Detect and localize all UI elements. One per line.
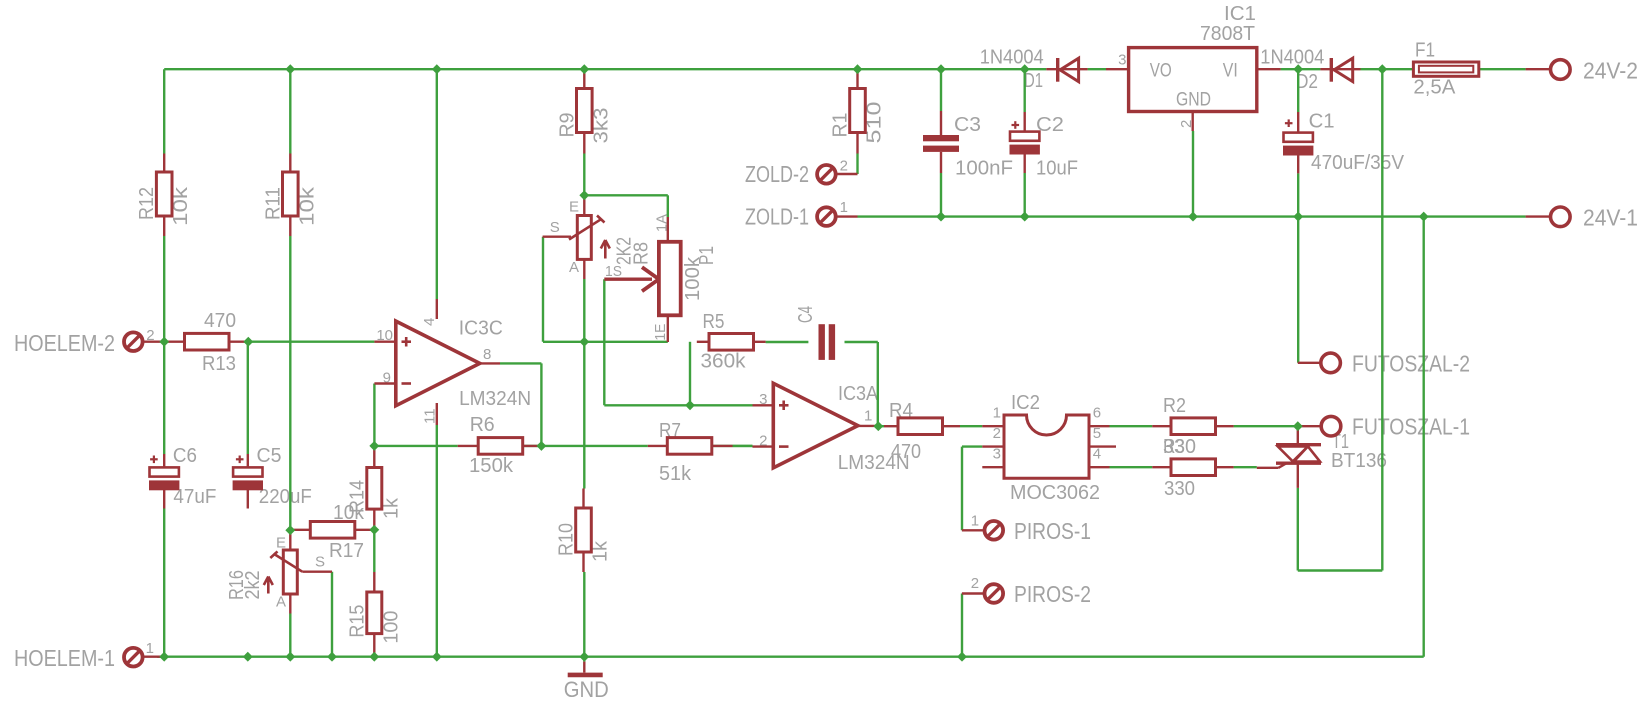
svg-text:2k2: 2k2 xyxy=(242,571,264,600)
svg-text:4: 4 xyxy=(421,318,438,326)
svg-text:PIROS-1: PIROS-1 xyxy=(1014,518,1091,544)
svg-text:2,5A: 2,5A xyxy=(1413,77,1456,99)
svg-text:R6: R6 xyxy=(470,414,495,436)
svg-text:R2: R2 xyxy=(1163,395,1186,417)
svg-text:MOC3062: MOC3062 xyxy=(1010,482,1100,504)
svg-text:470: 470 xyxy=(204,310,236,332)
svg-text:R12: R12 xyxy=(136,187,158,220)
svg-text:GND: GND xyxy=(1176,90,1211,111)
svg-text:1S: 1S xyxy=(605,263,622,280)
svg-text:2: 2 xyxy=(993,425,1001,442)
svg-text:HOELEM-2: HOELEM-2 xyxy=(14,330,115,356)
svg-text:470uF/35V: 470uF/35V xyxy=(1311,152,1405,174)
svg-text:C5: C5 xyxy=(257,445,282,467)
svg-text:IC1: IC1 xyxy=(1224,3,1256,25)
svg-text:1: 1 xyxy=(840,199,848,216)
svg-text:LM324N: LM324N xyxy=(838,452,910,474)
svg-text:1: 1 xyxy=(146,640,154,657)
svg-text:R17: R17 xyxy=(329,540,364,562)
svg-text:220uF: 220uF xyxy=(259,486,312,508)
svg-text:R13: R13 xyxy=(202,353,236,375)
svg-text:ZOLD-1: ZOLD-1 xyxy=(745,204,809,230)
svg-text:IC3C: IC3C xyxy=(459,318,503,340)
svg-text:1: 1 xyxy=(864,408,872,425)
svg-text:1N4004: 1N4004 xyxy=(980,47,1044,69)
svg-text:1E: 1E xyxy=(652,324,669,341)
svg-text:3: 3 xyxy=(1118,51,1126,68)
svg-text:2: 2 xyxy=(840,158,848,175)
svg-text:GND: GND xyxy=(564,677,609,702)
svg-text:47uF: 47uF xyxy=(173,486,216,508)
svg-text:360k: 360k xyxy=(701,351,747,373)
svg-text:HOELEM-1: HOELEM-1 xyxy=(14,645,115,671)
svg-text:C4: C4 xyxy=(795,306,817,323)
svg-text:BT136: BT136 xyxy=(1331,450,1387,472)
svg-text:VO: VO xyxy=(1150,61,1172,82)
svg-text:S: S xyxy=(315,554,325,571)
svg-text:F1: F1 xyxy=(1415,40,1435,62)
svg-text:A: A xyxy=(569,259,579,276)
svg-text:FUTOSZAL-2: FUTOSZAL-2 xyxy=(1352,351,1470,377)
svg-text:R14: R14 xyxy=(346,480,368,513)
svg-text:R15: R15 xyxy=(346,605,368,638)
svg-text:LM324N: LM324N xyxy=(459,388,531,410)
svg-text:IC3A: IC3A xyxy=(838,383,879,405)
svg-text:D1: D1 xyxy=(1024,70,1043,92)
svg-text:4: 4 xyxy=(1093,445,1101,462)
svg-text:150k: 150k xyxy=(469,455,514,477)
svg-text:VI: VI xyxy=(1223,61,1238,82)
svg-text:100nF: 100nF xyxy=(955,158,1013,180)
svg-text:3: 3 xyxy=(993,445,1001,462)
svg-text:24V-2: 24V-2 xyxy=(1583,58,1638,84)
svg-text:C6: C6 xyxy=(173,445,197,467)
svg-text:S: S xyxy=(550,219,560,236)
svg-text:330: 330 xyxy=(1164,478,1195,500)
svg-text:P1: P1 xyxy=(696,246,718,265)
svg-text:FUTOSZAL-1: FUTOSZAL-1 xyxy=(1352,414,1470,440)
svg-text:1N4004: 1N4004 xyxy=(1260,47,1324,69)
svg-text:A: A xyxy=(276,593,286,610)
svg-text:6: 6 xyxy=(1093,405,1101,422)
svg-text:1k: 1k xyxy=(380,497,402,519)
svg-text:C1: C1 xyxy=(1309,111,1335,133)
svg-text:2: 2 xyxy=(971,575,979,592)
svg-text:1: 1 xyxy=(971,513,979,530)
svg-text:R3: R3 xyxy=(1163,436,1185,458)
svg-text:8: 8 xyxy=(483,346,491,363)
svg-text:R8: R8 xyxy=(631,242,653,265)
svg-text:ZOLD-2: ZOLD-2 xyxy=(745,161,809,187)
svg-text:5: 5 xyxy=(1093,425,1101,442)
svg-text:1: 1 xyxy=(993,405,1001,422)
svg-text:7808T: 7808T xyxy=(1200,23,1255,45)
svg-text:51k: 51k xyxy=(659,463,692,485)
svg-text:PIROS-2: PIROS-2 xyxy=(1014,581,1091,607)
svg-text:IC2: IC2 xyxy=(1011,392,1040,414)
svg-text:C3: C3 xyxy=(954,114,981,136)
svg-text:10uF: 10uF xyxy=(1036,158,1078,180)
svg-text:E: E xyxy=(569,198,579,215)
svg-text:R5: R5 xyxy=(703,311,725,333)
svg-text:24V-1: 24V-1 xyxy=(1583,205,1638,231)
svg-text:100: 100 xyxy=(380,611,402,644)
